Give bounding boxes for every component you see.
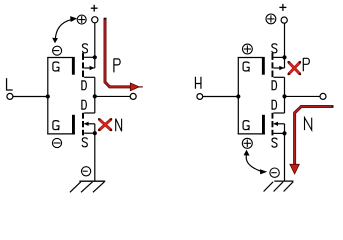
wire Q3 drain down to output node (right) — [284, 77, 286, 96]
node output (left) — [93, 94, 97, 98]
Q1 channel dashes — [82, 53, 84, 77]
label G (Q1 gate) — [53, 62, 59, 72]
red X not conducting (right P) — [287, 61, 301, 75]
label D (Q4 drain) — [272, 100, 277, 109]
label G (Q3 gate) — [243, 62, 249, 72]
wire Q2 drain stub — [84, 112, 95, 114]
Q2 body arrow (points left, NMOS) — [84, 122, 95, 134]
curved arrow charge movement (left top) — [52, 16, 77, 43]
Q2 channel dashes — [82, 113, 84, 136]
label S (Q1 source) — [82, 44, 87, 53]
plus symbol above Q3 gate — [243, 44, 253, 54]
supply terminal circle (left) — [92, 17, 98, 23]
gate electrode bar Q1 (PMOS, left) — [72, 57, 75, 75]
label H (input) — [195, 77, 201, 89]
label P (left) — [114, 59, 120, 73]
node Q4 source — [282, 131, 286, 135]
wire Q3 drain stub — [274, 76, 285, 78]
label S (Q4 source) — [272, 138, 277, 147]
red current path P (left, conducting) — [104, 18, 143, 91]
wire top gate hook horizontal (right) — [238, 57, 263, 59]
gate electrode bar Q4 (NMOS, right) — [262, 115, 265, 135]
node Q2 source — [93, 131, 97, 135]
label G (Q2 gate) — [53, 121, 59, 131]
label N (left) — [116, 119, 122, 132]
label D (Q2 drain) — [81, 100, 86, 109]
minus symbol above Q1 gate — [53, 46, 62, 55]
input terminal circle (left) — [7, 93, 13, 99]
label P (right) — [303, 58, 309, 71]
label S (Q3 source) — [272, 44, 277, 53]
Q3 channel dashes — [272, 53, 274, 77]
label L (input) — [7, 78, 13, 90]
wire Q1 source stub — [84, 56, 95, 58]
wire top gate hook horizontal — [47, 57, 72, 59]
red X not conducting (left N) — [98, 118, 112, 131]
red current path N (right, conducting) — [290, 105, 334, 174]
label N (right) — [305, 118, 312, 131]
node gate junction (right) — [236, 94, 240, 98]
minus symbol near ground (left) — [82, 167, 91, 176]
node source Q1 — [93, 55, 97, 59]
label D (Q3 drain) — [272, 81, 277, 90]
wire Q3 source stub — [274, 56, 285, 58]
wire Q2 drain up to output node — [94, 96, 96, 113]
wire gate vertical (left) — [47, 58, 49, 134]
label + supply (right) — [279, 4, 286, 11]
plus symbol near supply (right) — [266, 14, 276, 24]
curved arrow charge movement (right bottom) — [244, 150, 268, 175]
wire supply down to source node (right) — [284, 23, 286, 57]
Q4 channel dashes — [272, 113, 274, 136]
gate electrode bar Q2 (NMOS, left) — [72, 115, 75, 135]
wire output (right) — [285, 95, 320, 97]
plus symbol below Q4 gate — [242, 138, 252, 148]
label D (Q1 drain) — [81, 81, 86, 90]
wire bottom gate hook horizontal — [47, 133, 75, 135]
wire Q2 source stub — [84, 132, 95, 134]
wire Q1 drain down to output node — [94, 77, 96, 96]
label + supply (left) — [91, 5, 98, 12]
minus symbol near ground (right) — [270, 168, 279, 177]
wire output (left) — [95, 95, 130, 97]
wire Q1 drain stub — [84, 76, 95, 78]
label S (Q2 source) — [82, 138, 87, 147]
Q4 body arrow (points left, NMOS) — [273, 122, 284, 134]
label G (Q4 gate) — [243, 121, 249, 131]
ground (left) — [70, 181, 105, 192]
wire supply down to source node — [94, 23, 96, 57]
wire input H to gate node — [203, 96, 238, 98]
wire bottom gate hook horizontal (right) — [238, 133, 265, 135]
supply terminal circle (right) — [281, 17, 287, 23]
plus symbol near supply (left) — [77, 15, 86, 24]
Q1 body arrow (points right, PMOS) — [84, 57, 95, 70]
Q3 body arrow (points right, PMOS) — [274, 57, 285, 70]
gate electrode bar Q3 (PMOS, right) — [262, 57, 265, 75]
node source Q3 — [282, 55, 286, 59]
node output (right) — [282, 94, 286, 98]
wire gate vertical (right) — [237, 58, 239, 134]
minus symbol below Q2 gate — [52, 138, 61, 147]
wire Q4 drain up to output node — [284, 96, 286, 113]
ground (right) — [264, 181, 294, 191]
wire Q4 drain stub — [274, 112, 285, 114]
wire Q4 source stub — [274, 132, 285, 134]
input terminal circle (right) — [197, 94, 203, 100]
wire to ground (left) — [94, 133, 96, 181]
wire input L to gate node — [13, 96, 48, 98]
output terminal circle (right) — [320, 93, 326, 99]
node gate junction (left) — [46, 94, 50, 98]
output terminal circle (left) — [130, 93, 136, 99]
wire to ground (right) — [284, 133, 286, 181]
